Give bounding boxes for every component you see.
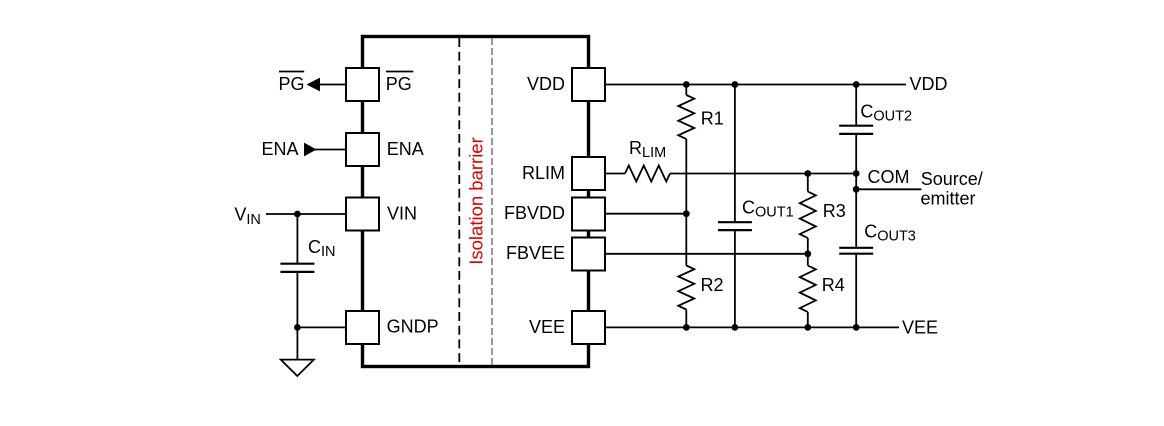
svg-text:R4: R4 bbox=[822, 275, 845, 295]
svg-text:PG: PG bbox=[386, 74, 412, 94]
junction VEE/COUT1 bbox=[732, 324, 739, 331]
capacitor COUT1 bbox=[718, 85, 752, 328]
node Source/emitter label bbox=[921, 169, 983, 209]
svg-text:VEE: VEE bbox=[529, 317, 565, 337]
pin PG label bbox=[386, 72, 414, 95]
svg-text:VDD: VDD bbox=[527, 74, 565, 94]
svg-text:Source/: Source/ bbox=[921, 169, 983, 189]
op IC body U1 bbox=[363, 37, 589, 367]
pin FBVDD square bbox=[572, 198, 605, 231]
junction VIN/CIN bbox=[294, 211, 301, 218]
wire RLIM to COM bbox=[670, 173, 856, 175]
wire COM to COUT3 bbox=[855, 174, 857, 190]
wire FBVEE bbox=[605, 253, 808, 255]
node PG external label bbox=[278, 72, 304, 95]
wire PG bbox=[319, 84, 346, 86]
svg-text:emitter: emitter bbox=[921, 189, 976, 209]
wire source/emitter stub bbox=[856, 188, 921, 190]
svg-text:GNDP: GNDP bbox=[387, 317, 439, 337]
pin RLIM square bbox=[572, 157, 605, 190]
junction FBVDD/R1/R2 bbox=[683, 210, 690, 217]
junction VDD/COUT2 bbox=[853, 81, 860, 88]
svg-text:VIN: VIN bbox=[387, 203, 417, 223]
resistor R2 bbox=[678, 214, 694, 328]
ENA input arrow bbox=[304, 143, 317, 157]
pin PG square bbox=[346, 68, 379, 101]
junction VEE/R2 bbox=[683, 324, 690, 331]
pin VEE square bbox=[572, 311, 605, 344]
pin VIN square bbox=[346, 198, 379, 231]
ground bbox=[281, 327, 314, 376]
svg-text:PG: PG bbox=[278, 74, 304, 94]
junction RLIM/R3 bbox=[804, 170, 811, 177]
resistor RLIM bbox=[605, 166, 670, 182]
junction GNDP/CIN bbox=[294, 324, 301, 331]
wire VDD rail bbox=[605, 84, 906, 86]
junction COM node bbox=[853, 170, 860, 177]
wire FBVDD bbox=[605, 213, 686, 215]
capacitor COUT3 bbox=[839, 189, 873, 327]
svg-text:R3: R3 bbox=[823, 201, 846, 221]
pin GNDP square bbox=[346, 311, 379, 344]
svg-text:ENA: ENA bbox=[387, 139, 424, 159]
svg-text:Isolation barrier: Isolation barrier bbox=[466, 137, 487, 265]
junction VEE/R4 bbox=[804, 324, 811, 331]
wire VEE rail bbox=[605, 326, 899, 328]
isolation barrier dashed line right bbox=[491, 38, 493, 365]
wire ENA bbox=[315, 149, 346, 151]
junction source/emitter bbox=[853, 186, 860, 193]
svg-text:R1: R1 bbox=[701, 108, 724, 128]
wire VIN bbox=[266, 213, 346, 215]
svg-text:COM: COM bbox=[868, 167, 910, 187]
svg-text:ENA: ENA bbox=[261, 139, 298, 159]
junction VEE/COUT3 bbox=[853, 324, 860, 331]
pin FBVEE square bbox=[572, 238, 605, 271]
svg-text:R2: R2 bbox=[701, 275, 724, 295]
svg-text:FBVDD: FBVDD bbox=[504, 203, 565, 223]
svg-text:RLIM: RLIM bbox=[522, 163, 565, 183]
resistor R3 bbox=[800, 174, 816, 254]
svg-text:VDD: VDD bbox=[910, 74, 948, 94]
resistor R4 bbox=[800, 254, 816, 328]
svg-text:FBVEE: FBVEE bbox=[506, 243, 565, 263]
capacitor CIN bbox=[280, 214, 314, 327]
PG output arrow bbox=[307, 78, 321, 92]
isolation barrier dashed line left bbox=[458, 38, 460, 365]
wire GNDP bbox=[297, 326, 346, 328]
resistor R1 bbox=[678, 85, 694, 214]
svg-text:VEE: VEE bbox=[902, 317, 938, 337]
junction FBVEE/R3/R4 bbox=[804, 250, 811, 257]
junction VDD/COUT1 bbox=[732, 81, 739, 88]
pin VDD square bbox=[572, 68, 605, 101]
junction VDD/R1 bbox=[683, 81, 690, 88]
capacitor COUT2 bbox=[839, 85, 873, 174]
pin ENA square bbox=[346, 133, 379, 166]
